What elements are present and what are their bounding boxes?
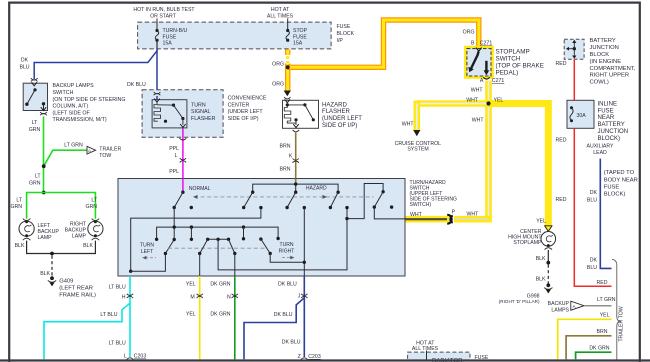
svg-text:PPL: PPL <box>169 146 179 152</box>
svg-text:INLINE: INLINE <box>598 101 618 107</box>
svg-text:WHT: WHT <box>410 212 423 218</box>
wire ORG from stop fuse with dashes and junction <box>285 50 290 92</box>
svg-text:FLASHER: FLASHER <box>191 116 216 122</box>
wire fuse bottom to box edge <box>156 40 158 49</box>
node dk blu column <box>303 206 306 276</box>
svg-text:NORMAL: NORMAL <box>189 186 211 192</box>
wire DK BLU branch jog <box>244 298 304 360</box>
connector on PPL wire <box>180 158 186 162</box>
svg-text:M: M <box>190 295 194 301</box>
svg-text:BLOCK: BLOCK <box>337 31 355 37</box>
svg-text:15A: 15A <box>293 41 303 47</box>
svg-text:N: N <box>227 295 231 301</box>
svg-text:HAZARD: HAZARD <box>322 102 347 108</box>
svg-text:SYSTEM: SYSTEM <box>407 146 428 152</box>
svg-text:WHT: WHT <box>466 98 479 104</box>
wiper yel <box>198 239 208 276</box>
svg-text:BLOCK): BLOCK) <box>598 136 621 142</box>
wire BLK below lamp <box>547 250 549 263</box>
connector half at dashed box exit <box>180 138 187 140</box>
svg-text:J: J <box>298 294 301 300</box>
connector on YEL <box>197 294 203 298</box>
wire RED down to trailer tow <box>574 128 611 286</box>
svg-text:HAZARD: HAZARD <box>306 186 327 192</box>
svg-text:30A: 30A <box>577 113 587 119</box>
label TURN LEFT <box>140 243 156 260</box>
label L and C203 <box>124 354 146 360</box>
svg-text:ALL TIMES: ALL TIMES <box>412 346 439 352</box>
svg-text:LT: LT <box>16 197 22 203</box>
label RIGHT BACKUP LAMP <box>65 221 87 239</box>
backup lamps arrow A <box>571 301 584 310</box>
node center contacts <box>206 238 230 241</box>
svg-text:LT: LT <box>32 120 38 126</box>
svg-text:LAMP: LAMP <box>38 235 53 241</box>
svg-text:(RIGHT 'D' PILLAR): (RIGHT 'D' PILLAR) <box>499 299 540 304</box>
svg-text:(UNDER LEFT: (UNDER LEFT <box>228 109 264 115</box>
wire RED to inline fuse <box>573 59 575 100</box>
label Z and C203 <box>298 354 321 360</box>
label HOT AT ALL TIMES heading <box>267 7 294 20</box>
ground G998 <box>544 283 552 293</box>
wire stub into stop fuse <box>287 19 289 31</box>
fuse TURN-B/U 15A <box>155 28 187 46</box>
svg-text:FRAME RAIL): FRAME RAIL) <box>59 292 96 298</box>
svg-text:WHT: WHT <box>402 121 415 127</box>
wire BRN trailer stub <box>566 336 611 360</box>
label TURN/HAZARD SWITCH <box>410 180 457 208</box>
connector on DK GRN <box>232 294 238 298</box>
connector half at backup switch entry <box>31 78 38 81</box>
label DK BLU (left) <box>19 58 29 71</box>
svg-text:K: K <box>289 153 293 159</box>
svg-text:BODY NEAR: BODY NEAR <box>604 177 638 183</box>
svg-text:TURN: TURN <box>191 103 206 109</box>
svg-text:LT: LT <box>35 174 41 180</box>
wire PPL entry stub <box>182 179 184 193</box>
svg-text:BLOCK: BLOCK <box>590 52 610 58</box>
wire LT GRN grey stub to trailer tow <box>585 305 612 307</box>
svg-text:ALL TIMES: ALL TIMES <box>267 14 294 20</box>
trailer tow brace <box>612 259 621 361</box>
svg-text:SWITCH: SWITCH <box>53 90 74 96</box>
svg-text:(ON TOP SIDE OF STEERING: (ON TOP SIDE OF STEERING <box>53 97 126 103</box>
svg-text:BATTERY: BATTERY <box>598 122 625 128</box>
svg-text:SIGNAL: SIGNAL <box>191 109 210 115</box>
label INLINE FUSE NEAR BATTERY JUNCTION BLOCK <box>598 101 629 141</box>
connector on DK BLU <box>301 294 307 298</box>
svg-text:TOW: TOW <box>99 153 111 159</box>
wiper dk grn <box>229 239 237 276</box>
svg-text:BRN: BRN <box>280 143 291 149</box>
label CENTER HIGH MOUNT STOPLAMP <box>508 229 542 246</box>
svg-text:TURN-B/U: TURN-B/U <box>163 28 188 34</box>
svg-text:JUNCTION: JUNCTION <box>598 129 629 135</box>
svg-text:STOP: STOP <box>293 28 308 34</box>
label LT GRN right lamp <box>85 197 97 210</box>
svg-text:CENTER: CENTER <box>228 102 250 108</box>
svg-text:BACKUP: BACKUP <box>548 301 570 307</box>
wire into bottom fuse block <box>426 351 428 360</box>
svg-text:DK GRN: DK GRN <box>589 346 609 352</box>
svg-text:A: A <box>480 78 484 84</box>
svg-text:TURN: TURN <box>140 243 154 249</box>
wire BRN entry stub <box>295 179 297 185</box>
wire WHT stoplamp A drop (yellow highlight) <box>485 81 492 220</box>
wire DK GRN from switch <box>234 276 236 359</box>
svg-text:FUSE: FUSE <box>604 185 620 191</box>
hazard flasher U3 <box>283 99 319 128</box>
svg-text:(IN ENGINE: (IN ENGINE <box>590 59 622 65</box>
svg-text:SIDE OF I/P): SIDE OF I/P) <box>322 123 357 129</box>
svg-text:ORG: ORG <box>272 82 284 88</box>
wire center bus to right <box>218 208 347 270</box>
svg-text:L: L <box>175 153 178 159</box>
wiper hazard left <box>242 191 254 210</box>
label TURN SIGNAL FLASHER <box>191 103 216 122</box>
svg-text:GRN: GRN <box>29 127 41 133</box>
label HAZARD FLASHER <box>322 102 362 129</box>
svg-text:TRANSMISSION, M/T): TRANSMISSION, M/T) <box>53 117 107 123</box>
svg-text:LEAD: LEAD <box>593 150 607 156</box>
wire WHT elbow to P connector <box>454 216 489 219</box>
svg-text:FUSE: FUSE <box>598 108 614 114</box>
wire YEL horizontal to center stoplamp <box>489 104 549 227</box>
svg-text:I/P: I/P <box>337 38 344 44</box>
label LT GRN left lamp <box>10 197 22 210</box>
inline fuse 30A box <box>567 100 594 128</box>
svg-text:PPL: PPL <box>169 169 179 175</box>
svg-text:LEFT: LEFT <box>141 249 153 255</box>
label BATTERY JUNCTION BLOCK <box>590 38 636 85</box>
svg-text:H: H <box>122 295 126 301</box>
svg-text:NEAR: NEAR <box>598 115 615 121</box>
right backup lamp <box>88 219 103 241</box>
convenience center dashed box <box>142 90 223 138</box>
svg-text:BLU: BLU <box>19 64 29 70</box>
svg-text:C203: C203 <box>134 354 147 360</box>
svg-text:CONVENIENCE: CONVENIENCE <box>228 95 267 101</box>
left backup lamp <box>19 219 34 241</box>
svg-text:RED: RED <box>556 61 567 67</box>
svg-text:DK BLU: DK BLU <box>274 312 293 318</box>
svg-text:BLU: BLU <box>587 198 597 204</box>
svg-text:BLK: BLK <box>536 256 546 262</box>
junction dot <box>42 164 46 168</box>
backup lamps switch box <box>23 82 47 110</box>
wiper normal (PPL) <box>173 191 185 210</box>
svg-text:C203: C203 <box>308 354 321 360</box>
label DK BLU aux lower <box>587 258 598 271</box>
wire YEL trailer stub <box>558 319 612 359</box>
svg-text:LT BLU: LT BLU <box>100 312 117 318</box>
svg-text:C271: C271 <box>480 40 493 46</box>
wire DK BLU from turn-b/u fuse: junction, diagonal and run to backup lamps switch <box>34 50 157 80</box>
wire stub into turn-b/u fuse <box>156 19 158 31</box>
svg-text:DK: DK <box>590 190 598 196</box>
svg-text:WHT: WHT <box>467 212 480 218</box>
svg-text:COLUMN, A/T): COLUMN, A/T) <box>53 104 89 110</box>
wire BRN to switch <box>295 132 297 185</box>
svg-text:COMPARTMENT,: COMPARTMENT, <box>590 66 636 72</box>
svg-text:RED: RED <box>556 197 567 203</box>
svg-text:BLOCK): BLOCK) <box>604 192 626 198</box>
junction dot lamps split <box>42 191 46 195</box>
label BACKUP LAMPS SWITCH text <box>53 83 126 123</box>
svg-text:DK: DK <box>590 258 598 264</box>
label CRUISE CONTROL SYSTEM <box>395 141 442 152</box>
svg-text:BACKUP LAMPS: BACKUP LAMPS <box>53 83 95 89</box>
connector P <box>447 215 453 224</box>
arrow into hazard flasher <box>284 91 291 97</box>
svg-text:BATTERY: BATTERY <box>590 38 616 44</box>
junction dot ORG <box>286 65 290 69</box>
svg-text:B: B <box>471 40 475 46</box>
svg-text:BLK: BLK <box>40 271 50 277</box>
svg-text:DK GRN: DK GRN <box>210 312 230 318</box>
dashed linkage top with arrows <box>193 195 374 199</box>
center high mount stoplamp <box>541 232 556 250</box>
svg-text:YEL: YEL <box>536 219 546 225</box>
wire LT GRN main drop <box>43 117 45 193</box>
svg-text:15A: 15A <box>163 41 173 47</box>
svg-text:OR START: OR START <box>150 14 177 20</box>
label DK BLU aux upper <box>587 190 598 203</box>
ground G409 <box>48 276 56 286</box>
svg-text:YEL: YEL <box>600 313 610 319</box>
wire LT BLU from switch <box>129 276 131 357</box>
wire LT GRN branch to trailer tow <box>44 150 87 166</box>
svg-text:RIGHT: RIGHT <box>279 249 295 255</box>
turn signal flasher U2 <box>152 99 187 128</box>
svg-text:HOT AT: HOT AT <box>271 7 290 13</box>
svg-text:LT BLU: LT BLU <box>109 284 126 290</box>
junction dot WHT/YEL <box>486 101 490 105</box>
svg-text:Z: Z <box>298 354 301 360</box>
svg-text:DK: DK <box>21 58 29 64</box>
label AUXILIARY LEAD <box>586 144 614 157</box>
battery junction block <box>564 39 584 59</box>
stoplamp switch S1 highlighted <box>467 48 491 76</box>
wire LT GRN split to both lamps <box>27 193 96 219</box>
svg-text:GRN: GRN <box>29 180 41 186</box>
svg-text:(TAPED TO: (TAPED TO <box>604 170 635 176</box>
fuse STOP 15A <box>286 28 308 46</box>
label TRAILER TOW <box>99 146 121 159</box>
wire PPL from flasher to switch <box>182 129 184 193</box>
label CONVENIENCE CENTER <box>228 95 267 122</box>
label G409 LEFT REAR FRAME RAIL <box>59 278 96 298</box>
svg-text:BLK: BLK <box>83 243 93 249</box>
svg-text:DK BLU: DK BLU <box>282 340 301 346</box>
svg-text:(LEFT SIDE OF: (LEFT SIDE OF <box>53 110 91 116</box>
svg-text:(LEFT REAR: (LEFT REAR <box>59 285 93 291</box>
wiper hazard right <box>329 191 340 210</box>
wire turn-left wiper loop <box>131 208 176 272</box>
svg-text:COWL): COWL) <box>590 80 609 86</box>
connector on LT BLU <box>127 294 133 298</box>
label LT GRN mid <box>29 174 41 187</box>
wire BLK dashed to ground <box>51 256 53 277</box>
svg-text:RIGHT UPPER: RIGHT UPPER <box>590 73 630 79</box>
svg-text:LT GRN: LT GRN <box>64 143 83 149</box>
svg-text:BLK: BLK <box>536 277 546 283</box>
svg-text:G409: G409 <box>59 278 73 284</box>
wire WHT horizontal to cruise tee <box>417 100 489 107</box>
svg-text:P: P <box>452 209 456 215</box>
svg-text:RED: RED <box>597 280 608 286</box>
label G998 RIGHT D PILLAR <box>499 294 540 305</box>
svg-text:L: L <box>124 354 127 360</box>
svg-text:LAMP: LAMP <box>72 233 87 239</box>
node right section wht <box>345 184 405 221</box>
svg-text:LAMPS: LAMPS <box>551 308 569 314</box>
svg-text:GRN: GRN <box>10 204 22 210</box>
connector half below backup switch <box>40 112 47 115</box>
svg-text:LT BLU: LT BLU <box>109 341 126 347</box>
svg-text:SWITCH): SWITCH) <box>410 202 432 208</box>
wire DK GRN trailer stub <box>576 352 612 359</box>
svg-text:HOT IN RUN, BULB TEST: HOT IN RUN, BULB TEST <box>133 7 195 13</box>
wire BLK lamp commons <box>27 241 96 254</box>
svg-text:ORG: ORG <box>272 62 284 68</box>
wiper hazard mid <box>285 191 297 210</box>
wire BLK dashed <box>547 265 549 284</box>
svg-text:LT: LT <box>91 197 97 203</box>
wire DK BLU auxiliary lead <box>600 159 611 269</box>
wire ORG run to stoplamp switch <box>288 20 479 67</box>
svg-text:TRAILER TOW: TRAILER TOW <box>619 306 625 341</box>
connector on BRN wire <box>293 159 299 163</box>
wire DK BLU from switch <box>303 276 305 357</box>
svg-text:ORG: ORG <box>463 30 475 36</box>
connector half below hazard flasher <box>293 130 300 132</box>
svg-text:LT GRN: LT GRN <box>597 297 616 303</box>
label FUSE BLOCK I/P <box>337 24 355 44</box>
fixed contact <box>190 206 193 209</box>
svg-text:DK GRN: DK GRN <box>210 281 230 287</box>
connector half at hazard flasher entry <box>284 97 291 99</box>
wire WHT cruise drop <box>413 101 420 137</box>
label TAPED TO BODY NEAR FUSE BLOCK <box>604 170 638 198</box>
wiper turn right <box>259 237 304 262</box>
svg-text:YEL: YEL <box>494 98 504 104</box>
svg-text:WHT: WHT <box>471 88 484 94</box>
wire DK BLU into flasher <box>156 96 158 100</box>
label STOPLAMP SWITCH <box>496 49 544 77</box>
label LT GRN below switch <box>29 120 41 133</box>
junction dot ground lead <box>50 252 54 256</box>
svg-text:YEL: YEL <box>186 281 196 287</box>
svg-text:BLU: BLU <box>587 265 597 271</box>
svg-text:TRAILER: TRAILER <box>99 146 121 152</box>
svg-text:PEDAL): PEDAL) <box>496 69 519 76</box>
connector half at flasher entry <box>154 92 161 95</box>
svg-text:FLASHER: FLASHER <box>322 109 351 115</box>
arrow into center stoplamp <box>545 226 552 232</box>
wire DK BLU drop to turn signal flasher <box>156 50 158 92</box>
label TURN RIGHT <box>279 242 295 259</box>
svg-text:DK BLU: DK BLU <box>278 281 297 287</box>
dashed linkage lower <box>168 247 267 249</box>
svg-text:GRN: GRN <box>85 204 97 210</box>
svg-text:DK BLU: DK BLU <box>127 82 146 88</box>
bottom fuse block <box>408 352 470 362</box>
svg-text:BRN: BRN <box>597 329 608 335</box>
svg-text:BLK: BLK <box>15 243 25 249</box>
wire YEL from switch <box>199 276 201 359</box>
svg-text:SIDE OF I/P): SIDE OF I/P) <box>228 116 259 122</box>
label HOT IN RUN heading <box>133 7 195 20</box>
svg-text:STOPLAMP: STOPLAMP <box>513 240 542 246</box>
svg-text:FUSE: FUSE <box>337 24 351 30</box>
wire WHT from switch to P connector <box>405 216 449 223</box>
svg-text:AUXILIARY: AUXILIARY <box>586 144 614 150</box>
svg-text:JUNCTION: JUNCTION <box>590 45 619 51</box>
svg-text:WHT: WHT <box>472 117 485 123</box>
svg-text:(UNDER LEFT: (UNDER LEFT <box>322 116 362 122</box>
connector half below stoplamp switch <box>483 77 490 79</box>
fuse block I/P box <box>138 22 332 49</box>
wire LT BLU branch jog <box>44 303 130 359</box>
hazard feed bus <box>253 182 338 192</box>
svg-text:TURN: TURN <box>279 242 293 248</box>
node line A wht feed left <box>129 206 263 273</box>
svg-text:RED: RED <box>556 138 567 144</box>
label LEFT BACKUP LAMP <box>38 223 60 241</box>
svg-text:YEL: YEL <box>186 312 196 318</box>
svg-text:BRN: BRN <box>280 167 291 173</box>
junction dot <box>546 261 550 265</box>
label BACKUP LAMPS <box>548 301 570 314</box>
svg-text:C271: C271 <box>492 78 505 84</box>
node line B bus <box>155 225 280 241</box>
trailer tow arrow A <box>87 146 96 154</box>
turn/hazard switch box S2 <box>118 179 405 277</box>
border frame bottom <box>0 359 650 361</box>
label HOT AT ALL TIMES bottom <box>412 341 439 352</box>
